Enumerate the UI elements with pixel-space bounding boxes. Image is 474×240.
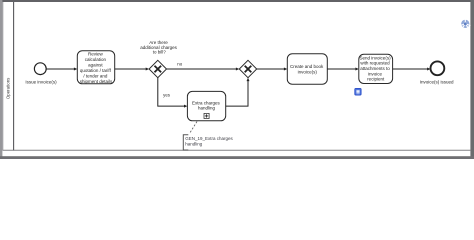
window frame bottom border [0, 156, 474, 159]
svg-text:Operations: Operations [6, 77, 11, 99]
gateway G2 exclusive (X) diamond [239, 60, 256, 77]
pool lane divider line [13, 2, 15, 150]
wire G2 to task Create and book [257, 68, 288, 71]
window frame left border [0, 0, 2, 159]
wire G1 to G2 (no branch) [167, 68, 240, 71]
subprocess collapsed plus marker [204, 113, 209, 118]
task: Send invoice(s) with requested attachments [359, 54, 393, 83]
wire subprocess to G2 bottom [226, 78, 250, 106]
wire start to task R1 [47, 68, 78, 71]
gateway G1 exclusive (X) diamond [149, 60, 166, 77]
task: Review calculation against quotation [77, 51, 114, 84]
task: Create and book invoice(s) [287, 54, 327, 84]
start event circle [34, 63, 46, 75]
subprocess: Extra charges handling [187, 91, 225, 120]
wire G1 down to subprocess (yes branch) [158, 78, 188, 108]
canvas background [0, 0, 474, 159]
wire task to gateway G1 [115, 68, 149, 71]
wire Send task to end event [393, 68, 431, 71]
top-right settings icon (blue dots) [460, 18, 470, 28]
annotation bracket [183, 135, 188, 150]
svg-text:yes: yes [163, 92, 171, 97]
window frame top border [0, 0, 474, 2]
pool bottom border [3, 149, 471, 151]
svg-text:Invoice(s) issued: Invoice(s) issued [420, 80, 454, 85]
wire Create task to Send task [327, 68, 359, 71]
end event circle (thick) [431, 61, 445, 75]
dashed association to annotation [190, 122, 198, 134]
blue overlay badge below Send task [355, 88, 361, 95]
svg-text:no: no [177, 62, 182, 67]
pool left border [2, 2, 4, 150]
window frame right border [470, 0, 474, 159]
svg-text:Issue invoice(s): Issue invoice(s) [25, 80, 57, 85]
